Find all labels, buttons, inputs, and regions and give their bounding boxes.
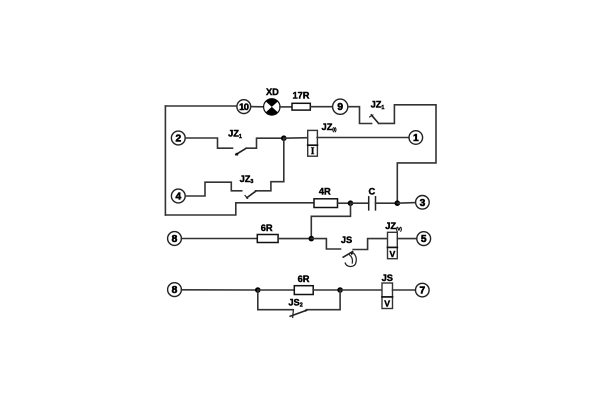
- wire contact JS to coil JZ(V): [353, 239, 387, 250]
- svg-text:2: 2: [175, 134, 181, 145]
- contact JZ3 (normally open): [240, 174, 256, 199]
- svg-text:17R: 17R: [292, 90, 309, 100]
- wire lamp to 17R: [280, 106, 292, 108]
- wire contact JZ3 up to node A: [256, 138, 284, 191]
- terminal 3: [416, 196, 430, 210]
- contact JZ1 (row 2, normally open): [228, 129, 246, 156]
- svg-text:I: I: [311, 146, 315, 156]
- wire left rail vertical: [164, 106, 166, 215]
- wire terminal 2 to contact JZ1: [185, 138, 232, 148]
- wire node C to terminal 3: [397, 202, 415, 205]
- resistor 6R (row 5): [294, 274, 313, 294]
- svg-text:6R: 6R: [298, 274, 310, 284]
- svg-text:3: 3: [420, 198, 426, 209]
- wire node D to contact JS: [311, 239, 340, 249]
- wire coil JZ(I) to terminal 1: [317, 137, 409, 139]
- wire coil JZ(V) to terminal 5: [397, 238, 417, 240]
- contact JS2 (normally open): [288, 297, 307, 317]
- svg-text:JZ(I): JZ(I): [322, 122, 337, 132]
- wire terminal 8 to resistor 6R: [181, 238, 257, 240]
- wire terminal 9 (lower) to node E: [181, 289, 257, 291]
- svg-text:4: 4: [175, 192, 181, 203]
- svg-text:C: C: [369, 187, 376, 197]
- relay coil JZ(V): [385, 221, 402, 259]
- contact JZ1 (top, normally open): [370, 100, 385, 124]
- svg-text:JZ1: JZ1: [371, 100, 385, 111]
- svg-text:JS2: JS2: [288, 297, 302, 308]
- relay coil JZ(I): [308, 122, 337, 156]
- wire top-left horizontal to terminal 10: [165, 105, 237, 107]
- node E junction dot: [255, 287, 261, 293]
- terminal 5: [417, 232, 431, 246]
- node C junction dot: [395, 200, 401, 206]
- terminal 7: [416, 283, 430, 297]
- relay coil JS (time relay): [382, 273, 393, 309]
- svg-text:1: 1: [413, 133, 419, 144]
- node A junction dot: [281, 135, 287, 141]
- capacitor C: [369, 187, 376, 210]
- svg-text:JS: JS: [382, 273, 393, 283]
- wire node E to resistor 6R (row 5): [258, 289, 295, 291]
- wire capacitor to node C: [376, 202, 398, 204]
- svg-text:8: 8: [172, 285, 178, 296]
- terminal 10: [237, 100, 251, 114]
- terminal 2: [171, 131, 185, 145]
- lamp XD: [264, 87, 280, 115]
- node B junction dot: [348, 200, 354, 206]
- svg-text:XD: XD: [266, 87, 279, 97]
- svg-text:V: V: [384, 299, 390, 309]
- node D junction dot: [309, 236, 315, 242]
- svg-text:JZ3: JZ3: [240, 174, 254, 185]
- wire 6R to node D: [278, 238, 311, 240]
- svg-text:V: V: [390, 249, 396, 259]
- terminal 4: [171, 189, 185, 203]
- svg-text:8: 8: [172, 234, 178, 245]
- svg-text:JZ1: JZ1: [228, 129, 242, 140]
- terminal 1: [409, 131, 423, 145]
- resistor 6R (row 4): [257, 223, 278, 243]
- wire contact JS2 up to node F: [307, 290, 340, 310]
- svg-text:JZ(V): JZ(V): [385, 221, 402, 231]
- wire node F to coil JS: [340, 289, 382, 291]
- svg-text:5: 5: [421, 234, 427, 245]
- wire node A to coil JZ(I): [284, 137, 308, 140]
- svg-text:9: 9: [337, 102, 343, 113]
- wire 4R to node B: [338, 202, 351, 204]
- wire node B to capacitor C: [351, 202, 369, 204]
- wire contact JZ1 right side over and down to node C column: [379, 105, 437, 203]
- wire terminal 9 to contact JZ1 (top): [348, 107, 372, 124]
- svg-text:7: 7: [419, 286, 425, 297]
- wire contact JZ1 to node A: [246, 138, 284, 148]
- wire bottom rail to 4R row: [165, 203, 314, 215]
- resistor 4R: [314, 187, 338, 208]
- resistor 17R: [292, 90, 310, 110]
- svg-text:6R: 6R: [261, 223, 273, 233]
- wire terminal10 to lamp XD: [251, 106, 264, 108]
- wire node B down to node D: [311, 203, 350, 238]
- svg-text:10: 10: [239, 101, 249, 112]
- node F junction dot: [337, 287, 343, 293]
- terminal 8: [168, 232, 182, 246]
- wire branch node E down to contact JS2: [258, 290, 293, 310]
- wire 6R to node F: [313, 289, 340, 291]
- svg-text:4R: 4R: [319, 187, 331, 197]
- wire coil JS to terminal 7: [393, 289, 416, 291]
- terminal 9 (lower): [168, 283, 182, 297]
- wire terminal 4 to contact JZ3: [185, 182, 242, 196]
- svg-text:JS: JS: [341, 235, 352, 245]
- contact JS (time-delay, normally open): [341, 235, 356, 267]
- terminal 9: [333, 99, 348, 114]
- wire 17R to terminal 9: [310, 106, 332, 108]
